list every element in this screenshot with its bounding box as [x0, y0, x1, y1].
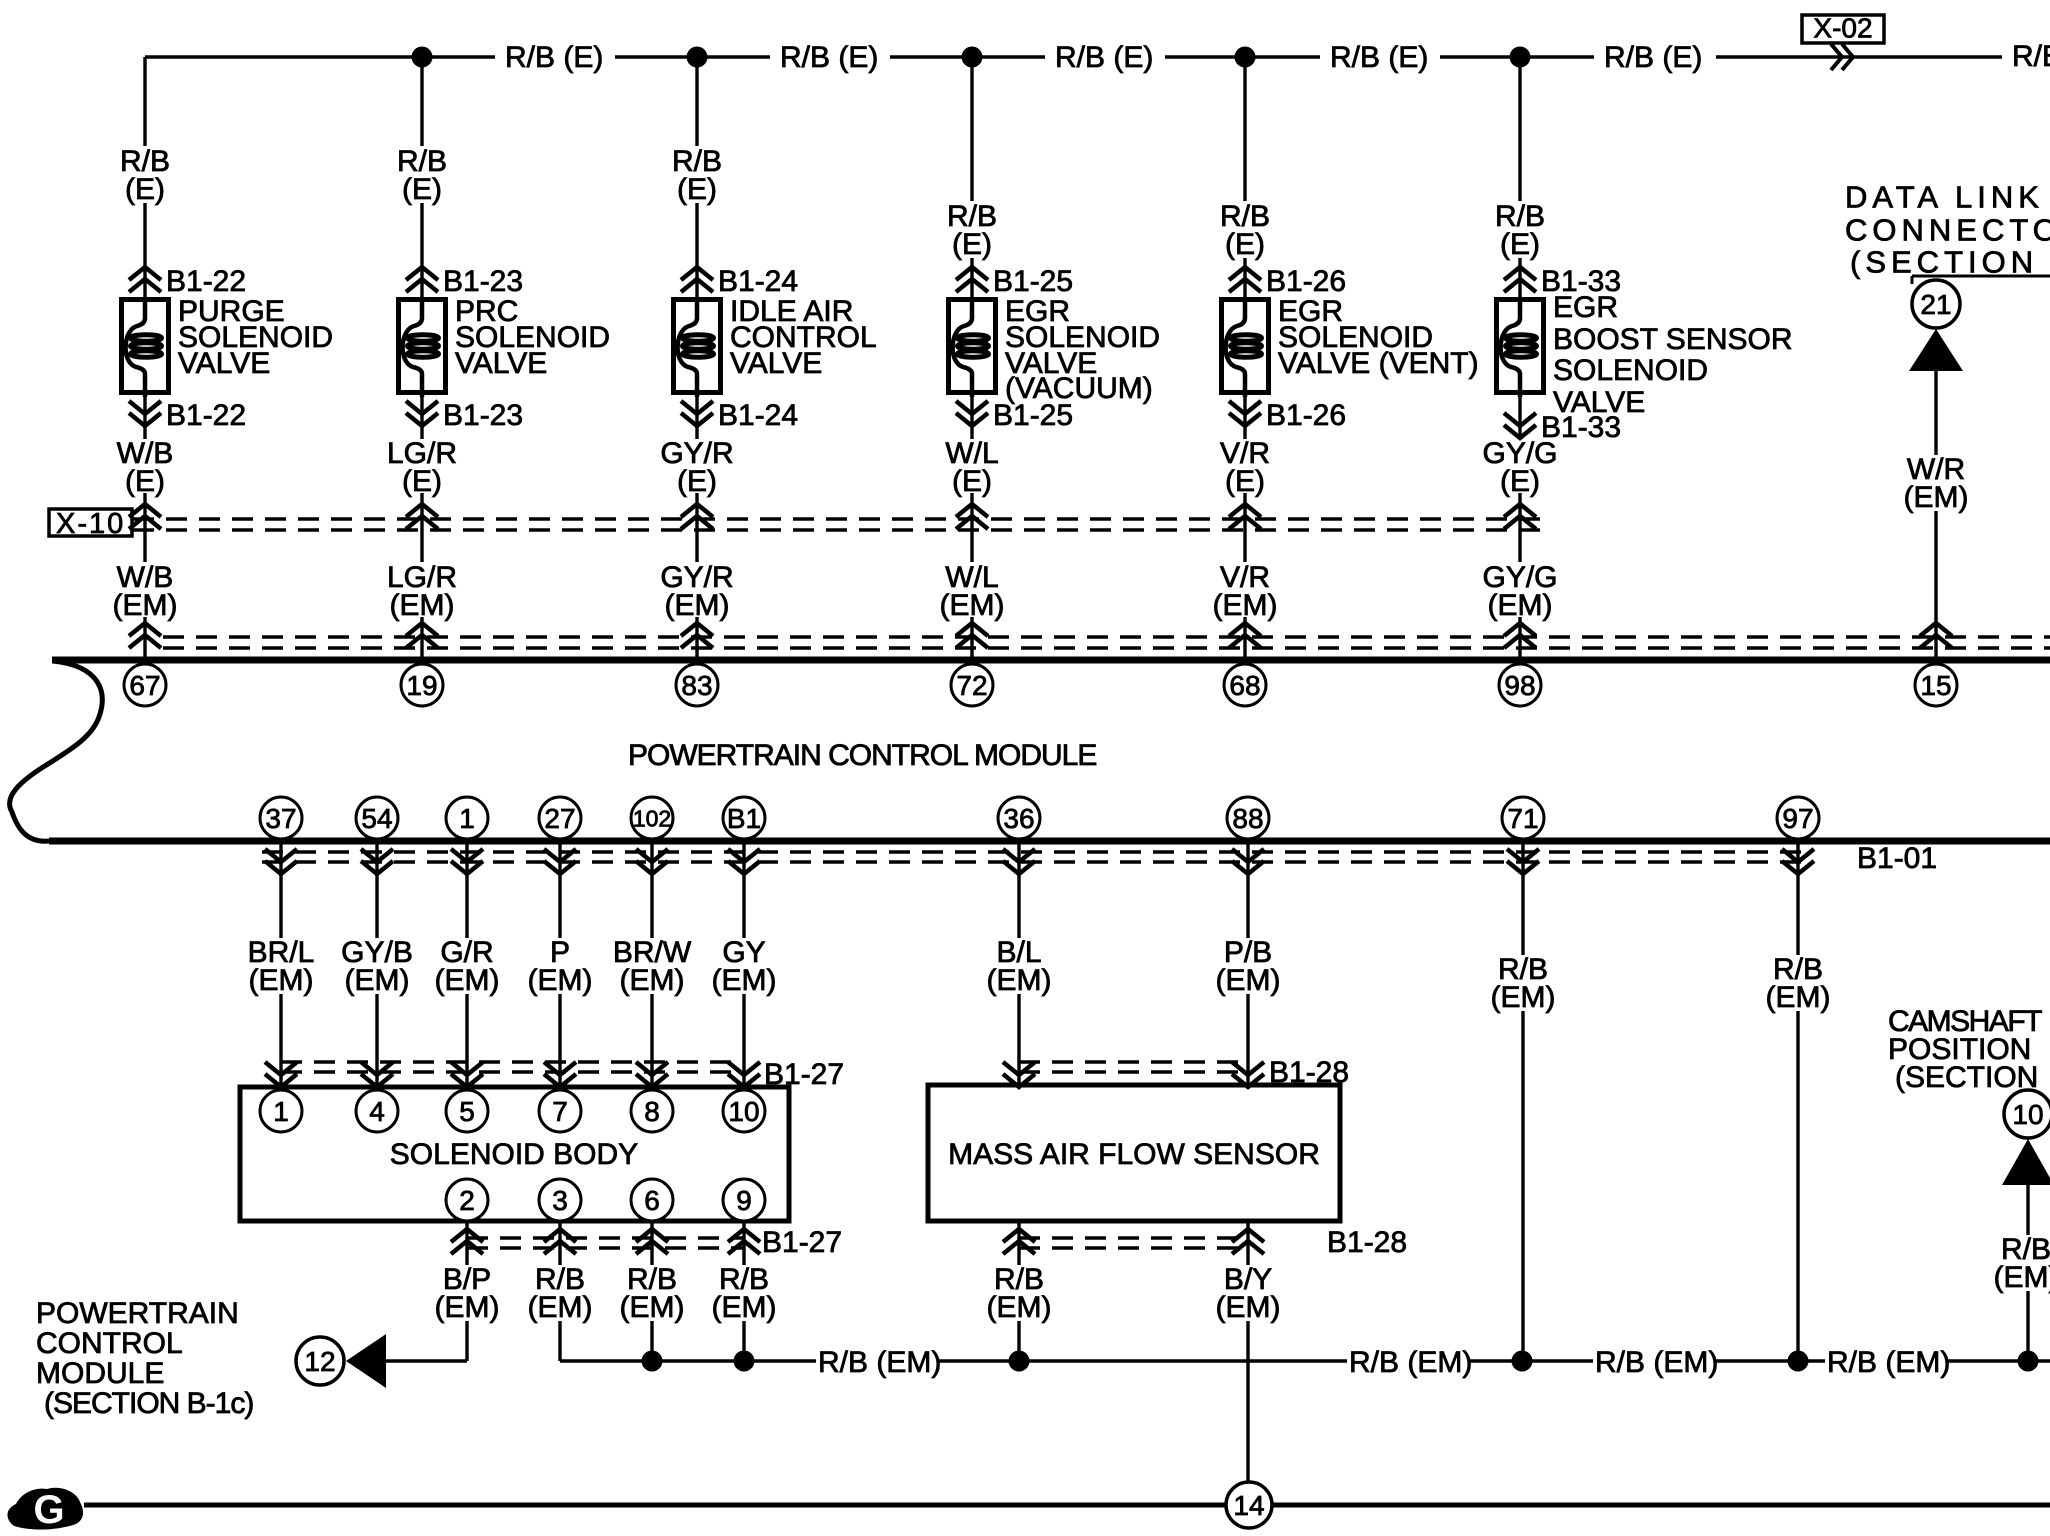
svg-text:G: G [33, 1488, 64, 1532]
svg-text:97: 97 [1782, 803, 1813, 834]
svg-text:(EM): (EM) [1213, 589, 1278, 622]
svg-text:B1-28: B1-28 [1327, 1226, 1407, 1259]
svg-text:X-02: X-02 [1813, 12, 1872, 43]
svg-text:B1-22: B1-22 [166, 265, 246, 298]
svg-text:21: 21 [1920, 289, 1951, 320]
svg-text:54: 54 [361, 803, 392, 834]
svg-text:VALVE (VENT): VALVE (VENT) [1278, 347, 1479, 380]
svg-text:83: 83 [681, 670, 712, 701]
svg-text:(EM): (EM) [712, 964, 777, 997]
svg-text:(EM): (EM) [1216, 964, 1281, 997]
svg-text:(EM): (EM) [1488, 589, 1553, 622]
svg-text:6: 6 [644, 1185, 660, 1216]
svg-text:(EM): (EM) [528, 964, 593, 997]
svg-text:BOOST SENSOR: BOOST SENSOR [1553, 323, 1793, 356]
svg-text:(EM): (EM) [940, 589, 1005, 622]
svg-text:(E): (E) [125, 173, 165, 206]
svg-text:37: 37 [265, 803, 296, 834]
svg-text:72: 72 [956, 670, 987, 701]
svg-text:(SECTION B-1c): (SECTION B-1c) [44, 1387, 253, 1420]
svg-text:(E): (E) [677, 173, 717, 206]
svg-text:(EM): (EM) [987, 964, 1052, 997]
svg-text:(SECTION F-17): (SECTION F-17) [1850, 245, 2050, 280]
svg-text:CONTROL: CONTROL [36, 1327, 183, 1360]
svg-text:(EM): (EM) [390, 589, 455, 622]
svg-text:(E): (E) [402, 173, 442, 206]
svg-text:B1-24: B1-24 [718, 399, 798, 432]
svg-text:15: 15 [1920, 670, 1951, 701]
svg-text:VALVE: VALVE [455, 347, 547, 380]
svg-text:(EM): (EM) [435, 1291, 500, 1324]
svg-text:SOLENOID BODY: SOLENOID BODY [390, 1138, 638, 1171]
svg-text:VALVE: VALVE [178, 347, 270, 380]
svg-text:R/B (E): R/B (E) [505, 41, 603, 74]
svg-text:R/B (EM): R/B (EM) [1349, 1346, 1472, 1379]
svg-text:SOLENOID: SOLENOID [1553, 354, 1708, 387]
svg-text:(EM): (EM) [1766, 981, 1831, 1014]
svg-text:8: 8 [644, 1096, 660, 1127]
svg-text:(EM): (EM) [665, 589, 730, 622]
svg-text:(EM): (EM) [1994, 1261, 2050, 1294]
svg-text:(E): (E) [1500, 465, 1540, 498]
svg-text:68: 68 [1229, 670, 1260, 701]
svg-text:R/B (E): R/B (E) [780, 41, 878, 74]
svg-text:R/B (E): R/B (E) [1330, 41, 1428, 74]
svg-text:(EM): (EM) [249, 964, 314, 997]
svg-text:R/B (EM): R/B (EM) [1595, 1346, 1718, 1379]
svg-text:B1: B1 [727, 803, 761, 834]
svg-text:VALVE: VALVE [730, 347, 822, 380]
svg-text:(E): (E) [952, 465, 992, 498]
svg-text:102: 102 [633, 805, 671, 831]
svg-text:(E): (E) [1225, 228, 1265, 261]
svg-text:9: 9 [736, 1185, 752, 1216]
svg-text:10: 10 [2012, 1099, 2043, 1130]
svg-text:36: 36 [1003, 803, 1034, 834]
svg-text:R/B (E): R/B (E) [1604, 41, 1702, 74]
svg-text:27: 27 [544, 803, 575, 834]
svg-text:MASS AIR FLOW SENSOR: MASS AIR FLOW SENSOR [948, 1138, 1320, 1171]
svg-text:CONNECTOR: CONNECTOR [1845, 213, 2050, 248]
svg-text:7: 7 [552, 1096, 568, 1127]
svg-text:B1-26: B1-26 [1266, 399, 1346, 432]
svg-text:2: 2 [459, 1185, 475, 1216]
svg-text:(EM): (EM) [528, 1291, 593, 1324]
svg-text:R/B (E): R/B (E) [1055, 41, 1153, 74]
svg-text:B1-26: B1-26 [1266, 265, 1346, 298]
svg-text:1: 1 [459, 803, 475, 834]
svg-text:5: 5 [459, 1096, 475, 1127]
svg-text:(EM): (EM) [620, 1291, 685, 1324]
svg-text:(E): (E) [125, 465, 165, 498]
svg-text:10: 10 [728, 1096, 759, 1127]
svg-text:B1-01: B1-01 [1857, 842, 1937, 875]
svg-text:4: 4 [369, 1096, 385, 1127]
svg-text:B1-25: B1-25 [993, 265, 1073, 298]
svg-text:B1-24: B1-24 [718, 265, 798, 298]
svg-text:67: 67 [129, 670, 160, 701]
svg-text:1: 1 [273, 1096, 289, 1127]
svg-text:B1-23: B1-23 [443, 265, 523, 298]
svg-text:(E): (E) [1225, 465, 1265, 498]
svg-text:(E): (E) [1500, 228, 1540, 261]
svg-text:(EM): (EM) [1216, 1291, 1281, 1324]
svg-text:(SECTION: (SECTION [1895, 1061, 2038, 1094]
svg-text:(E): (E) [402, 465, 442, 498]
svg-text:(EM): (EM) [113, 589, 178, 622]
svg-text:12: 12 [304, 1346, 335, 1377]
svg-text:B1-25: B1-25 [993, 399, 1073, 432]
svg-text:(E): (E) [677, 465, 717, 498]
svg-text:R/B (E): R/B (E) [2012, 40, 2050, 73]
svg-text:19: 19 [406, 670, 437, 701]
svg-text:B1-27: B1-27 [762, 1226, 842, 1259]
svg-text:(EM): (EM) [987, 1291, 1052, 1324]
svg-text:POWERTRAIN: POWERTRAIN [36, 1297, 239, 1330]
svg-text:EGR: EGR [1553, 291, 1618, 324]
svg-text:98: 98 [1504, 670, 1535, 701]
svg-text:14: 14 [1233, 1490, 1264, 1521]
svg-text:3: 3 [552, 1185, 568, 1216]
svg-text:(EM): (EM) [345, 964, 410, 997]
svg-text:(EM): (EM) [712, 1291, 777, 1324]
svg-text:(EM): (EM) [1491, 981, 1556, 1014]
svg-text:(E): (E) [952, 228, 992, 261]
svg-text:R/B (EM): R/B (EM) [1827, 1346, 1950, 1379]
svg-text:(EM): (EM) [1904, 481, 1969, 514]
svg-text:88: 88 [1232, 803, 1263, 834]
svg-text:DATA LINK: DATA LINK [1845, 180, 2044, 215]
svg-text:MODULE: MODULE [36, 1357, 164, 1390]
svg-text:X-10: X-10 [56, 508, 125, 540]
svg-text:POWERTRAIN CONTROL MODULE: POWERTRAIN CONTROL MODULE [628, 739, 1096, 772]
svg-text:R/B (EM): R/B (EM) [818, 1346, 941, 1379]
svg-text:71: 71 [1507, 803, 1538, 834]
svg-text:B1-22: B1-22 [166, 399, 246, 432]
svg-text:(EM): (EM) [620, 964, 685, 997]
svg-text:(EM): (EM) [435, 964, 500, 997]
svg-text:B1-23: B1-23 [443, 399, 523, 432]
